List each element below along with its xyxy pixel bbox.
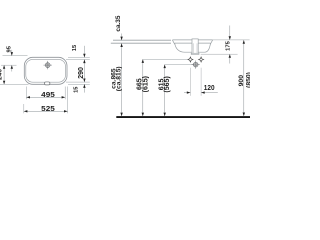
dimension 290: line with arrows	[83, 60, 85, 83]
dimension 95: top extension line	[3, 55, 28, 57]
section: basin left edge slant	[172, 40, 174, 44]
section: drain foot	[191, 53, 199, 54]
dimension 15 bottom-right: arrow tail	[83, 84, 85, 92]
svg-text:495: 495	[41, 92, 55, 99]
section: basin rim top line	[172, 39, 212, 41]
drain extension vertical right	[200, 68, 202, 96]
section: basin rim bottom line	[175, 42, 211, 44]
clipped left dimension: line	[3, 65, 5, 84]
plan view: cutout inner outline	[26, 59, 66, 82]
fixing hole diamond right	[199, 57, 204, 62]
top extension line right of basin	[213, 39, 250, 41]
svg-text:(ca.815): (ca.815)	[115, 66, 122, 91]
dimension 95: up arrow tail	[11, 65, 13, 71]
section: basin right edge slant	[210, 40, 212, 44]
dimension ca.35: down arrow tail	[121, 34, 123, 41]
dimension 525: witness lines	[23, 104, 25, 113]
dimension 175: up arrow tail	[229, 54, 231, 63]
dimension 120: left arrow tail	[184, 92, 190, 94]
extension line right (cutout bottom)	[66, 81, 90, 83]
rim bottom extension line left	[0, 83, 29, 85]
dimension 495: witness lines	[25, 87, 27, 100]
dimension 665: extension line	[143, 58, 188, 60]
svg-text:(850): (850)	[246, 72, 250, 88]
svg-text:240: 240	[0, 69, 4, 80]
svg-text:15: 15	[74, 86, 80, 93]
dimension 525: line	[24, 110, 68, 112]
plan view: basin rim outer outline	[24, 57, 67, 84]
drain extension vertical left	[189, 68, 191, 96]
svg-text:(565): (565)	[164, 76, 171, 92]
extension line right bottom (rim)	[68, 83, 90, 85]
fixing hole diamond left	[188, 57, 193, 62]
plan view: faucet hole crosshair	[44, 61, 52, 69]
faucet axis extension line left	[1, 64, 17, 66]
svg-text:ca.35: ca.35	[115, 15, 122, 31]
svg-text:120: 120	[204, 85, 215, 92]
dimension 900: line	[243, 40, 245, 116]
dimension 175: bottom extension line	[201, 53, 238, 55]
svg-text:15: 15	[72, 44, 78, 51]
svg-text:(615): (615)	[142, 76, 149, 92]
section: drain inner wall lines	[192, 43, 194, 53]
section: bowl curve	[175, 43, 211, 52]
dimension 665: line	[142, 59, 144, 116]
drain crosshair symbol	[192, 61, 200, 69]
svg-text:525: 525	[41, 106, 55, 113]
svg-text:290: 290	[78, 67, 85, 79]
extension line right (cutout top)	[66, 59, 90, 61]
section: countertop bottom line	[111, 42, 171, 44]
plan view: overflow slot	[45, 82, 50, 85]
dimension 615: line	[164, 65, 166, 117]
dimension 120: right arrow tail	[201, 92, 218, 94]
svg-text:900: 900	[238, 75, 245, 87]
extension line right top (rim)	[68, 56, 90, 58]
section: drain outer rect	[192, 39, 198, 53]
floor line	[116, 116, 250, 118]
dimension 175: down arrow tail	[229, 26, 231, 40]
dimension 615: extension line	[165, 64, 194, 66]
section: countertop top line	[113, 39, 171, 41]
svg-text:175: 175	[225, 40, 231, 50]
dimension 495: line	[26, 96, 65, 98]
dimension 95: down arrow tail	[11, 50, 13, 56]
dimension 15 top-right: arrow tail	[83, 46, 85, 58]
dimension ca.865: line	[121, 43, 123, 116]
